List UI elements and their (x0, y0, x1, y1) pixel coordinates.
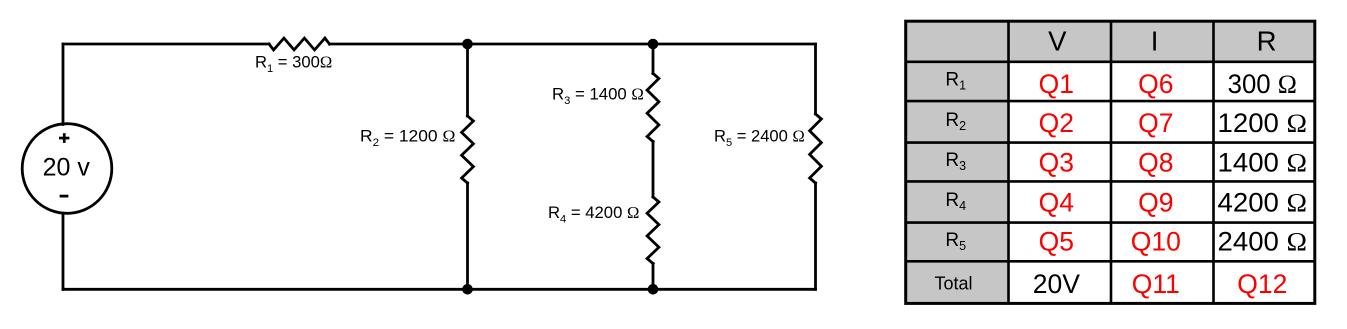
svg-text:Q12: Q12 (1237, 269, 1287, 299)
svg-text:Q7: Q7 (1138, 108, 1173, 138)
V1 minus sign (60, 195, 69, 198)
wire R5 branch upper lead (814, 44, 817, 114)
wire R4 branch lower lead (652, 264, 655, 290)
svg-text:1200 Ω: 1200 Ω (1218, 108, 1308, 138)
svg-text:R1 = 300Ω: R1 = 300Ω (255, 53, 332, 76)
wire R2 branch lower lead (466, 183, 469, 289)
wire between R3 and R4 (652, 142, 655, 198)
svg-text:Q10: Q10 (1131, 227, 1181, 257)
svg-text:R4 = 4200 Ω: R4 = 4200 Ω (548, 203, 639, 226)
svg-text:20 v: 20 v (43, 154, 91, 182)
svg-text:Q1: Q1 (1039, 69, 1074, 99)
svg-text:Q6: Q6 (1138, 69, 1173, 99)
resistor R3 zigzag (647, 74, 659, 142)
node junction bottom R4 (648, 284, 659, 295)
svg-text:Q8: Q8 (1138, 148, 1173, 178)
svg-text:1400 Ω: 1400 Ω (1218, 148, 1308, 178)
wire top-left vertical (62, 44, 65, 125)
wire R2 branch upper lead (466, 44, 469, 116)
table grid lines (906, 21, 1315, 303)
wire R3 branch upper lead (652, 44, 655, 74)
node junction bottom R2 (462, 284, 473, 295)
node junction top R2 (462, 39, 473, 50)
wire top rail left segment (63, 43, 269, 46)
resistor R2 zigzag (462, 116, 474, 183)
svg-text:20V: 20V (1033, 269, 1080, 299)
resistor R4 zigzag (647, 197, 659, 264)
table outer border (906, 21, 1315, 303)
svg-text:300 Ω: 300 Ω (1228, 69, 1297, 99)
svg-text:Q3: Q3 (1039, 148, 1074, 178)
svg-text:Q2: Q2 (1039, 108, 1074, 138)
node junction top R3 (648, 39, 659, 50)
svg-text:R3 = 1400 Ω: R3 = 1400 Ω (552, 85, 644, 108)
svg-text:Total: Total (934, 274, 972, 294)
svg-text:I: I (1151, 26, 1159, 57)
svg-text:2400 Ω: 2400 Ω (1218, 227, 1308, 257)
svg-text:R2 = 1200 Ω: R2 = 1200 Ω (360, 126, 455, 149)
wire top rail right segment (330, 43, 816, 46)
svg-text:4200 Ω: 4200 Ω (1218, 188, 1308, 218)
svg-text:Q4: Q4 (1039, 188, 1074, 218)
svg-text:V: V (1048, 26, 1067, 57)
resistor R1 zigzag (269, 38, 330, 50)
wire R5 branch lower lead (814, 183, 817, 289)
voltage source V1 20v circle (22, 124, 112, 214)
resistor R5 zigzag (810, 114, 822, 183)
V1 plus sign (59, 133, 69, 143)
svg-text:Q9: Q9 (1138, 188, 1173, 218)
svg-text:Q5: Q5 (1039, 227, 1074, 257)
svg-text:Q11: Q11 (1132, 269, 1180, 299)
table: answer grid background (906, 21, 1315, 303)
svg-text:R5 = 2400 Ω: R5 = 2400 Ω (714, 126, 805, 149)
wire bottom rail (63, 288, 816, 291)
svg-text:R: R (1257, 26, 1277, 57)
wire bottom-left vertical (62, 213, 65, 289)
